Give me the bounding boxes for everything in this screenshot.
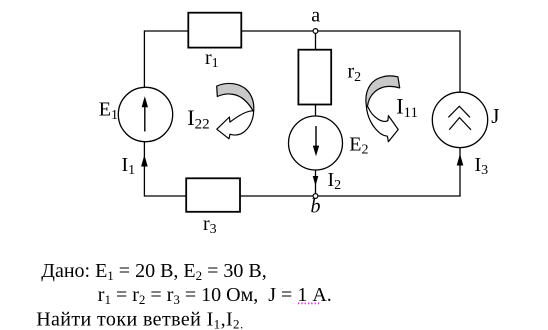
svg-text:I11: I11 — [396, 94, 418, 122]
resistor r2 — [298, 50, 331, 105]
svg-text:Найти токи ветвей I1,I2.: Найти токи ветвей I1,I2. — [36, 308, 243, 330]
svg-text:b: b — [311, 196, 321, 218]
loop current arrow I11 — [366, 76, 400, 142]
svg-text:E1: E1 — [99, 99, 118, 123]
resistor r3 — [186, 178, 240, 212]
resistor r1 — [188, 13, 241, 48]
current arrow I3 — [457, 154, 464, 166]
wire r1 to node a — [241, 30, 313, 32]
current arrow I2 — [313, 170, 319, 194]
svg-text:I22: I22 — [187, 105, 209, 133]
wire right vertical upper — [459, 30, 461, 92]
svg-text:E2: E2 — [349, 133, 368, 157]
current source J — [432, 92, 487, 147]
loop current arrow I22 — [217, 83, 254, 138]
current arrow I1 — [141, 155, 148, 167]
wire right vertical lower — [459, 148, 461, 196]
wire r3 to left corner — [144, 195, 186, 197]
node b — [313, 194, 318, 199]
wire left vertical upper — [143, 30, 145, 88]
svg-text:I1: I1 — [122, 154, 136, 178]
wire bottom right — [318, 195, 461, 197]
wire r2 to E2 — [315, 105, 317, 117]
wire node a to r2 — [315, 33, 317, 49]
wire node b to r3 — [240, 195, 313, 197]
svg-text:r3: r3 — [203, 213, 217, 237]
svg-text:a: a — [311, 5, 320, 27]
svg-text:I3: I3 — [475, 154, 489, 178]
node a — [313, 29, 318, 34]
svg-text:Дано: Е1 = 20 В, Е2 = 30 В,: Дано: Е1 = 20 В, Е2 = 30 В, — [41, 260, 266, 283]
svg-text:r1: r1 — [205, 47, 219, 71]
wire left vertical lower — [143, 142, 145, 197]
svg-text:J: J — [491, 104, 499, 128]
svg-text:I2: I2 — [328, 169, 342, 193]
spellcheck underline — [298, 302, 321, 304]
svg-text:r2: r2 — [348, 61, 362, 85]
wire top-left horizontal — [144, 30, 188, 32]
voltage source E1 — [118, 87, 172, 141]
wire node a to right corner — [318, 30, 460, 32]
voltage source E2 — [289, 116, 343, 170]
svg-text:r1 = r2 = r3 = 10 Ом, J = 1 А: r1 = r2 = r3 = 10 Ом, J = 1 А. — [98, 284, 332, 307]
